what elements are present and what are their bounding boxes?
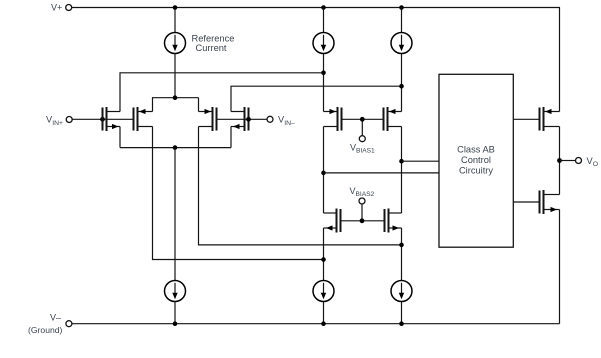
transistor M10 output NMOS <box>540 190 560 214</box>
node junction VBIAS1 <box>360 117 365 122</box>
node junction x401.5 y86.2 <box>399 84 404 89</box>
wire M7 source down to current source I5 <box>323 228 325 281</box>
svg-text:V–: V– <box>50 313 61 323</box>
wire V+ rail down to M9 source <box>559 8 561 112</box>
svg-text:(Ground): (Ground) <box>28 325 63 335</box>
svg-text:Circuitry: Circuitry <box>459 166 493 176</box>
wire M1 drain up-right to x323.5 <box>120 73 324 112</box>
transistor M4 input NMOS (VIN- outer-right) <box>231 107 249 131</box>
wire VIN- gate line <box>217 118 268 120</box>
wire M2 source up to PMOS tail <box>153 98 199 112</box>
wire V+ top rail <box>72 7 560 9</box>
svg-text:V+: V+ <box>51 3 62 13</box>
wire box to M10 gate <box>513 201 539 203</box>
node junction top rail x323.5 <box>321 5 326 10</box>
node V- (Ground) terminal <box>28 313 72 335</box>
transistor M9 output PMOS <box>540 107 560 131</box>
Class AB Control Circuitry box U1 <box>439 74 513 247</box>
node VIN- terminal <box>267 115 295 127</box>
node junction x323.5 y172.9 <box>321 171 326 176</box>
current source top-middle I2 <box>313 8 334 112</box>
transistor M2 input PMOS (VIN+ inner-left) <box>134 107 153 131</box>
wire M4 drain up-right to x401.5 <box>231 86 402 111</box>
node junction VBIAS2 <box>360 218 365 223</box>
node VBIAS1 terminal <box>350 136 375 155</box>
transistor M8 cascode NMOS right <box>385 209 402 233</box>
node junction PMOS tail <box>173 95 178 100</box>
wire M2 drain down to y259.5 bus <box>153 127 324 260</box>
node junction NMOS tail <box>173 145 178 150</box>
wire M3 source up to PMOS tail <box>198 98 200 112</box>
wire VBIAS1 gate line <box>342 119 384 135</box>
current source reference I1 <box>165 8 186 98</box>
wire M9 drain to output node to M10 drain <box>559 127 561 195</box>
node V+ terminal <box>51 3 72 13</box>
node junction M1 gate <box>100 117 105 122</box>
node VO terminal <box>576 156 599 168</box>
wire M10 source down to bottom rail <box>559 210 561 324</box>
current source top-right I3 <box>391 8 412 112</box>
node junction x323.5 y72.8 <box>321 71 326 76</box>
node junction x401.5 y244.9 <box>399 243 404 248</box>
wire output node to VO terminal <box>560 160 576 162</box>
transistor M5 cascode PMOS left <box>324 107 342 131</box>
label Reference Current <box>192 33 235 53</box>
current source bottom-left I4 <box>165 281 186 324</box>
current source bottom-right I6 <box>391 281 412 324</box>
wire cascode node to Class AB box upper <box>402 160 440 162</box>
node junction M4 gate <box>246 117 251 122</box>
wire NMOS tail <box>120 147 231 149</box>
wire M4 source down to tail <box>230 127 232 148</box>
transistor M6 cascode PMOS right <box>384 107 402 131</box>
node junction top rail x401.5 <box>399 5 404 10</box>
node junction bottom rail x175 <box>173 321 178 326</box>
wire NMOS tail down to current source I4 <box>174 148 176 281</box>
node junction bottom rail x401.5 <box>399 321 404 326</box>
wire M8 source down to current source I6 <box>401 228 403 281</box>
node junction top rail x175 <box>173 5 178 10</box>
wire M6 drain column down <box>401 127 403 214</box>
transistor M7 cascode NMOS left <box>324 209 341 233</box>
svg-text:Current: Current <box>196 43 227 53</box>
transistor M3 input PMOS (VIN- inner-right) <box>199 107 217 131</box>
node VIN+ terminal <box>46 115 72 127</box>
wire VIN+ gate line <box>72 118 133 120</box>
wire M1 source down to tail <box>119 127 121 148</box>
node junction bottom rail x323.5 <box>321 321 326 326</box>
svg-text:Class AB: Class AB <box>457 144 495 154</box>
node junction x323.5 y259.5 <box>321 257 326 262</box>
node junction output <box>557 158 562 163</box>
wire V- bottom rail <box>72 323 560 325</box>
svg-text:Control: Control <box>461 155 491 165</box>
wire M3 drain down to y244.9 bus <box>199 127 402 245</box>
current source bottom-middle I5 <box>313 281 334 324</box>
transistor M1 input NMOS (VIN+ outer-left) <box>103 107 121 131</box>
svg-text:Reference: Reference <box>192 33 235 43</box>
node junction x401.5 y161.2 <box>399 159 404 164</box>
wire cascode node to Class AB box lower <box>324 172 440 174</box>
node VBIAS2 terminal <box>350 186 375 204</box>
wire box to M9 gate <box>513 118 539 120</box>
wire M5 drain column down <box>323 127 325 214</box>
wire VBIAS2 gate line <box>341 204 385 221</box>
